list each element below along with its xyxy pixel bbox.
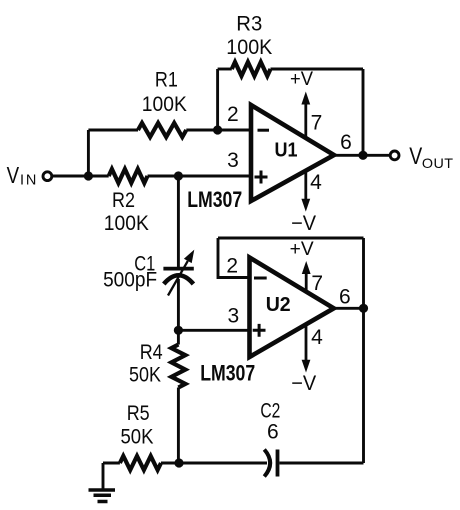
svg-text:100K: 100K xyxy=(104,212,149,235)
svg-text:C2: C2 xyxy=(260,400,280,423)
svg-text:2: 2 xyxy=(227,103,239,126)
node: C1/R4/U2 pin3 junction xyxy=(174,326,183,335)
U1 +V supply arrow xyxy=(304,101,307,138)
resistor R1 xyxy=(138,123,186,137)
resistor R3 xyxy=(232,62,271,76)
U1 minus input mark xyxy=(258,129,270,132)
svg-text:OUT: OUT xyxy=(422,155,454,171)
svg-text:4: 4 xyxy=(311,326,323,349)
svg-text:100K: 100K xyxy=(142,93,187,116)
output terminal VOUT xyxy=(390,151,399,160)
svg-text:500pF: 500pF xyxy=(103,269,157,292)
node: R4 bottom junction xyxy=(174,458,183,467)
wire: bottom line left of R5 xyxy=(103,462,120,465)
svg-text:R4: R4 xyxy=(140,341,163,364)
node: U1 pin2 junction xyxy=(213,125,222,134)
wire: R4 leads xyxy=(177,330,180,344)
wire: bottom line C2 to right bus xyxy=(280,462,364,465)
ground stem xyxy=(102,463,105,490)
svg-text:50K: 50K xyxy=(121,426,154,449)
resistor R5 xyxy=(120,456,161,470)
U2 plus input mark xyxy=(253,324,266,337)
svg-text:U2: U2 xyxy=(266,294,291,316)
op-amp U1 xyxy=(251,105,334,201)
svg-text:50K: 50K xyxy=(129,364,161,387)
wire: R2 right to U1 pin3 xyxy=(148,175,252,178)
wire: feedback top line R3 right xyxy=(271,68,364,71)
wire: R1 line to U1 pin2 xyxy=(88,129,138,132)
svg-text:7: 7 xyxy=(311,112,323,135)
wire: to U2 pin3 xyxy=(178,329,249,332)
capacitor C1 curved plate xyxy=(164,275,194,284)
wire: riser from VIN node to R1 line xyxy=(87,130,90,176)
node: U2 output junction xyxy=(359,304,368,313)
U2 -V supply arrow xyxy=(305,325,308,363)
wire: right bus down from U2 loop to bottom xyxy=(362,238,365,463)
svg-text:6: 6 xyxy=(339,286,351,309)
wire: feedback top line R3 left xyxy=(218,68,232,71)
svg-text:+V: +V xyxy=(290,69,313,90)
svg-text:R3: R3 xyxy=(236,13,262,36)
U1 plus input mark xyxy=(255,171,268,184)
wire: VIN input line to U1 pin3 xyxy=(52,175,109,178)
wire: U2 pin2 L-shaped lead xyxy=(218,238,250,278)
input terminal VIN xyxy=(43,172,52,181)
node: VIN junction xyxy=(84,171,93,180)
resistor R2 xyxy=(109,169,148,183)
U1 -V supply arrow xyxy=(304,171,307,202)
svg-text:3: 3 xyxy=(227,305,239,328)
capacitor C1 adjust arrow xyxy=(168,261,188,296)
svg-text:−V: −V xyxy=(291,212,316,235)
svg-text:R1: R1 xyxy=(155,69,178,92)
node: U1 pin3 / C1 junction xyxy=(174,171,183,180)
svg-text:V: V xyxy=(7,162,20,188)
capacitor C1 (variable) top plate xyxy=(163,267,193,271)
wire: U2 feedback top line xyxy=(218,237,364,240)
capacitor C2 straight plate xyxy=(276,450,280,477)
svg-text:6: 6 xyxy=(267,421,279,444)
wire: U1 output xyxy=(334,154,390,157)
svg-text:R2: R2 xyxy=(112,189,135,212)
svg-text:6: 6 xyxy=(340,131,352,154)
wire: feedback right leg down to output xyxy=(362,69,365,155)
U2 minus input mark xyxy=(254,277,267,280)
svg-text:V: V xyxy=(409,143,422,170)
U2 +V supply arrow xyxy=(305,273,308,292)
svg-text:−V: −V xyxy=(291,372,316,395)
svg-text:U1: U1 xyxy=(275,140,298,162)
capacitor C2 curved plate xyxy=(264,450,270,477)
wire: U2 output xyxy=(334,307,364,310)
svg-text:LM307: LM307 xyxy=(187,187,242,212)
op-amp U2 xyxy=(250,258,334,358)
wire: C1 bottom to R4 top xyxy=(177,279,180,330)
wire: branch down to C1 xyxy=(177,176,180,267)
node: U1 output junction xyxy=(358,151,367,160)
svg-text:3: 3 xyxy=(227,149,239,172)
svg-text:4: 4 xyxy=(310,171,322,194)
resistor R4 xyxy=(171,345,185,388)
wire: feedback loop left leg (pin2 up) xyxy=(216,69,219,130)
svg-text:LM307: LM307 xyxy=(200,360,255,385)
svg-text:IN: IN xyxy=(20,173,38,189)
svg-text:2: 2 xyxy=(226,255,238,278)
svg-text:100K: 100K xyxy=(226,36,272,59)
svg-text:R5: R5 xyxy=(127,402,150,425)
wire: bottom line R5 to C2 xyxy=(161,462,267,465)
ground symbol xyxy=(89,490,116,502)
svg-text:+V: +V xyxy=(290,239,314,260)
svg-text:7: 7 xyxy=(311,272,323,295)
